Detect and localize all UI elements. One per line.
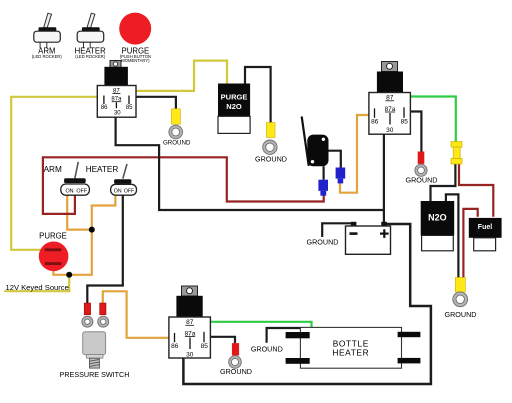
- svg-text:86: 86: [101, 105, 108, 111]
- relay U2 (N2O main relay, top right): [369, 62, 411, 135]
- toggle switch ARM (schematic symbol): [44, 162, 90, 195]
- blue crimp connector (microswitch bottom): [318, 180, 328, 196]
- svg-text:85: 85: [201, 343, 209, 350]
- solenoid PURGE N2O: [218, 84, 250, 134]
- ground G2: yellow crimp, ring terminal and label (purge solenoid): [255, 123, 287, 164]
- wire R2 dark red: inline fuse to Fuel solenoid: [459, 163, 493, 217]
- wire GRN1 green: relay2 pin87 to inline fuse: [396, 97, 456, 142]
- svg-text:HEATER: HEATER: [332, 348, 369, 358]
- toggle switch ARM (physical, top): [32, 13, 63, 59]
- svg-text:N2O: N2O: [428, 213, 447, 223]
- wire K7 black: purge solenoid to ground connector: [245, 67, 271, 123]
- svg-text:GROUND: GROUND: [445, 310, 477, 319]
- svg-text:OFF: OFF: [124, 188, 134, 194]
- blue crimp connector (microswitch side): [336, 168, 346, 184]
- solenoid Fuel: [469, 218, 502, 251]
- svg-text:MOMENTARY): MOMENTARY): [121, 58, 150, 63]
- wire W3 yellow: 12V keyed source feed: [4, 275, 69, 291]
- inline fuse holder (yellow) on green wire: [451, 142, 462, 165]
- wire K8 black: microswitch side terminal to blue crimp: [329, 151, 341, 168]
- wire R1 dark red: ARM switch to microswitch bottom terminal: [43, 157, 324, 214]
- svg-text:85: 85: [126, 105, 133, 111]
- wire K14 black: HEATER switch to pressure switch: [87, 195, 123, 304]
- push button PURGE (schematic symbol): [39, 232, 69, 271]
- wire K5 black: battery negative to ground: [322, 223, 351, 237]
- wire W2 yellow: relay1 pin87 to purge solenoid: [120, 61, 227, 91]
- wire K2 black: relay1 pin30 to battery positive bus: [116, 117, 384, 210]
- svg-text:N2O: N2O: [226, 102, 242, 111]
- svg-text:GROUND: GROUND: [406, 175, 438, 184]
- svg-text:85: 85: [401, 119, 409, 126]
- wire K11 black: N2O solenoid return to ground connector: [446, 194, 459, 277]
- toggle switch HEATER (schematic symbol): [86, 164, 137, 195]
- svg-text:HEATER: HEATER: [86, 165, 119, 174]
- svg-text:30: 30: [386, 127, 394, 134]
- wire K13 black: bottle heater to ground: [267, 328, 301, 343]
- wire O4 orange: microswitch crimp to relay2 pin86: [340, 115, 369, 193]
- svg-text:30: 30: [186, 352, 194, 359]
- svg-text:ON: ON: [114, 188, 122, 194]
- wire W1 yellow: relay1 pin86 to purge button: [11, 97, 97, 250]
- ground G4: yellow crimp, ring terminal and label (N2O/Fuel solenoids): [445, 278, 477, 319]
- wire K10 black: inline fuse to N2O solenoid: [431, 163, 456, 201]
- wire O3 orange: pressure switch to relay3 pin86: [103, 291, 169, 338]
- svg-text:30: 30: [114, 111, 121, 117]
- ground G1: yellow crimp, ring terminal and label (relay1 85): [163, 109, 191, 147]
- wire R3 dark red: Fuel solenoid return to ground connector: [463, 209, 477, 278]
- microswitch (WOT switch): [302, 117, 329, 166]
- ground G3: red crimp, ring terminal and label (relay2 85): [406, 152, 438, 185]
- svg-text:GROUND: GROUND: [163, 140, 191, 147]
- svg-text:GROUND: GROUND: [307, 237, 339, 246]
- relay U1 (purge relay, top left): [97, 61, 136, 118]
- wire K3 black: relay2 pin30 down to battery positive: [383, 134, 385, 222]
- svg-text:ARM: ARM: [44, 165, 62, 174]
- solenoid N2O: [421, 201, 455, 251]
- svg-text:12V Keyed Source: 12V Keyed Source: [6, 283, 69, 292]
- svg-text:PRESSURE SWITCH: PRESSURE SWITCH: [60, 370, 130, 379]
- junction dot A at ARM/HEATER orange wires: [89, 227, 95, 233]
- svg-text:GROUND: GROUND: [255, 154, 287, 163]
- wire K1 black: relay1 pin85 to ground connector: [129, 97, 176, 109]
- svg-text:OFF: OFF: [76, 189, 87, 195]
- svg-text:(LED ROCKER): (LED ROCKER): [75, 54, 106, 59]
- battery 12V: [346, 222, 391, 255]
- svg-text:GROUND: GROUND: [251, 345, 283, 354]
- wire K4 black: battery positive around right side to relay3 pin30: [183, 224, 431, 384]
- wire K12 black: relay3 pin85 to ground connector: [205, 337, 236, 343]
- svg-text:PURGE: PURGE: [39, 232, 67, 241]
- toggle switch HEATER (physical, top): [75, 13, 106, 59]
- pressure switch assembly: [60, 303, 130, 379]
- svg-text:(LED ROCKER): (LED ROCKER): [32, 54, 63, 59]
- junction dot B at 12V keyed source: [66, 272, 72, 278]
- wire O1 orange: ARM switch to junction: [67, 195, 92, 229]
- relay U3 (bottle heater relay, bottom): [169, 286, 211, 359]
- svg-text:86: 86: [371, 119, 379, 126]
- wire GRN2 green: relay3 pin87 to bottle heater: [196, 322, 312, 328]
- svg-text:ON: ON: [65, 189, 73, 195]
- ground G7: red crimp, ring terminal and label (relay3 85): [220, 343, 252, 376]
- wire K9 black: microswitch bottom terminal to blue crimp: [323, 166, 325, 179]
- svg-text:86: 86: [171, 343, 179, 350]
- wire O2 orange: HEATER switch through junctions to purge button bottom: [53, 195, 115, 275]
- wire K6 black: relay2 pin85 to ground connector: [405, 112, 421, 152]
- bottle heater: [286, 327, 421, 368]
- svg-text:Fuel: Fuel: [478, 224, 492, 231]
- svg-text:GROUND: GROUND: [220, 367, 252, 376]
- push button PURGE (physical, top): [119, 13, 151, 63]
- svg-text:PURGE: PURGE: [221, 93, 248, 102]
